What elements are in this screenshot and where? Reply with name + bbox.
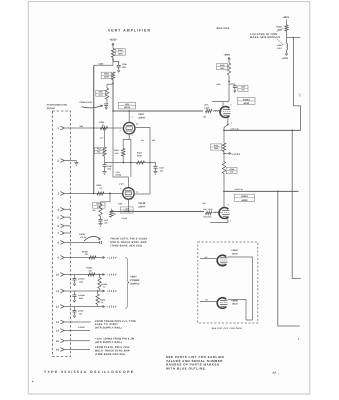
resistor R303 (series, pin 1 wire) [100,121,108,129]
svg-text:12BY7: 12BY7 [138,206,146,209]
svg-text:6DQ8: 6DQ8 [241,199,248,202]
tube V304 [123,111,135,140]
svg-text:(TIME-BASE GEN SIG): (TIME-BASE GEN SIG) [111,244,143,247]
resistor R1044 [92,204,102,217]
svg-text:.001: .001 [241,89,245,92]
svg-text:INTERCONNECTING: INTERCONNECTING [47,104,68,107]
svg-text:+125V: +125V [107,257,118,260]
interconnecting socket dashed box [52,111,70,357]
svg-text:C345: C345 [122,63,128,66]
svg-text:R1047: R1047 [276,26,282,29]
svg-text:+62: +62 [202,202,205,205]
wire R349 to junction [228,75,230,102]
label +350V (pin 12) [107,306,118,309]
svg-text:R305: R305 [114,149,119,152]
wire cathode split [123,140,131,163]
pointer lines (located note) [277,28,284,45]
svg-text:3.3: 3.3 [136,191,138,194]
pin 7 of interconnecting socket [57,231,70,235]
svg-text:(R316): (R316) [116,174,122,177]
svg-text:C1050A: C1050A [78,278,85,281]
svg-text:100: 100 [89,269,92,272]
svg-text:L306: L306 [125,103,129,106]
svg-text:C349: C349 [241,86,245,89]
wire right rail A (to upper defl line) [293,38,300,131]
svg-text:2: 2 [120,129,121,132]
label L316 R316 [116,171,122,177]
svg-text:R306: R306 [104,73,110,76]
resistor R1050 (pin 10) [87,267,105,276]
svg-text:R349: R349 [220,64,225,67]
svg-text:L1047: L1047 [277,44,283,47]
title VERT AMPLIFIER [108,29,151,33]
svg-text:6: 6 [228,203,229,206]
pin 3 of interconnecting socket [57,192,122,196]
resistor R307 [96,88,109,100]
wire V384A plate out [228,257,253,320]
svg-text:8: 8 [120,188,121,191]
inductor L1047 [277,44,288,50]
capacitor C1050A [70,275,85,286]
svg-text:+62: +62 [203,116,206,119]
ground (C317) [153,171,157,174]
svg-text:470: 470 [85,253,88,256]
svg-text:+245: +245 [216,83,220,86]
power +225V (right rail) [282,16,289,25]
tube V384A [217,255,228,266]
svg-text:+67: +67 [205,298,208,301]
ground (pin 2) [74,161,78,166]
wire R1047 to junction [286,31,288,44]
capacitor C1052 [73,307,84,318]
svg-text:V343A: V343A [241,195,248,198]
resistor R1059 (pin 9) [82,251,105,260]
svg-text:R1050: R1050 [87,267,93,270]
pin 3 V343A [228,203,231,223]
resistor R335 [210,143,225,152]
svg-text:SOCKET: SOCKET [47,107,56,110]
wire right rail B (upper defl drop) [292,130,301,278]
mark AA1 [272,371,279,375]
wire L1047 down [285,50,287,56]
pin 2 of interconnecting socket [57,159,74,163]
wire R304 to junction [112,58,114,66]
svg-text:470: 470 [160,169,163,172]
peaking coil box L306 [119,102,136,109]
pin 10 of interconnecting socket [56,273,104,277]
svg-text:+190V: +190V [224,54,231,57]
resistor R1056 [96,290,105,306]
wire +100V tap [223,152,231,154]
label 1.7V [100,136,105,139]
wire R305 to bias line [122,156,124,163]
pin 14 of interconnecting socket [56,329,90,333]
wire V304 plate to R317 column [135,127,150,194]
power +225V (top left) [109,39,117,49]
label V314 12BY7 [138,202,146,208]
svg-text:SUPPLY: SUPPLY [130,282,140,285]
grid network L341 R341 [203,208,221,219]
wire R346 to lower defl junction [223,174,225,208]
wire to R307 branch [107,84,113,88]
note pin 15 supply [95,338,134,344]
pin 3 V333A [231,103,232,124]
svg-text:C1052: C1052 [78,310,83,313]
caption TYPE 553/553A OSCILLOSCOPE [44,370,135,374]
svg-text:BASE GEN MODULE: BASE GEN MODULE [250,36,280,39]
note pin 16 sync amp [95,346,130,356]
resistor R317 [137,152,145,165]
label 6.3VAC (pin 13) [78,326,85,329]
pin 15 of interconnecting socket [56,339,90,343]
node R349/C349 junction [228,81,230,83]
node bus / pin1 wire [93,127,95,129]
wire mid column to lower plate feed [130,163,132,178]
svg-text:(TIME-BASE GEN SIG): (TIME-BASE GEN SIG) [95,353,125,356]
svg-text:1: 1 [132,134,133,137]
svg-text:V384A: V384A [231,249,238,252]
capacitor C345 [113,62,128,73]
tube V314 [123,188,135,212]
svg-text:470K: 470K [137,155,142,158]
svg-text:100K: 100K [220,67,225,70]
wire lower deflection line [224,191,299,193]
svg-text:+225V: +225V [282,57,289,60]
tick mark (rail A) [299,93,301,96]
svg-text:1: 1 [278,373,279,376]
node lower grid line junction [109,193,111,195]
label +62 (V333A) [203,116,206,119]
svg-text:1.3μH: 1.3μH [204,107,210,110]
svg-text:C317: C317 [159,167,164,170]
svg-text:V333A: V333A [243,98,250,101]
svg-text:C316: C316 [107,165,112,168]
label +125V [107,257,118,260]
svg-text:R304: R304 [118,49,124,52]
svg-text:L344 1.3μ: L344 1.3μ [234,188,242,191]
label V304 12BY7 [138,113,146,119]
power +190V [224,54,231,63]
svg-text:(1.5μH): (1.5μH) [121,217,127,220]
label +100V [107,274,118,277]
label L344 [234,188,242,191]
label +165 [118,202,123,205]
svg-text:(R314): (R314) [124,210,130,213]
svg-text:L341 1.5μH: L341 1.5μH [203,208,213,211]
note located in time base [250,33,280,39]
svg-text:+350V: +350V [107,306,118,309]
resistor R1052 [98,274,107,291]
wire plate feed V333A [212,102,229,107]
tube V333A [220,107,231,118]
svg-text:2.5K: 2.5K [115,152,120,155]
label box V333A 6DJ8 [237,97,255,105]
svg-text:6DJ8: 6DJ8 [232,303,238,306]
svg-text:R346: R346 [229,168,234,171]
svg-text:100K: 100K [214,147,219,150]
svg-text:V304: V304 [138,113,144,116]
svg-text:(HTR SUPPLY RAIL): (HTR SUPPLY RAIL) [95,341,122,344]
wire bias line [105,162,151,164]
svg-text:+225V: +225V [282,16,289,19]
capacitor C1050B [70,291,85,302]
wire upper deflection line [224,130,301,132]
mark plus [32,380,34,384]
note pin 13/14 heater supply [95,320,136,330]
label V384A 6DJ8 [231,249,238,255]
resistor R305 [114,149,125,157]
label INTERCONNECTING SOCKET [47,104,68,110]
svg-text:220K: 220K [104,76,109,79]
node bus / pin3 wire [93,193,95,195]
svg-text:R341 680: R341 680 [204,216,212,219]
label V384B 6DJ8 [231,299,238,305]
capacitor C317 [150,163,164,173]
wire R317 to V314 plate [135,193,150,195]
label +225V (pin 11) [107,290,118,293]
wire junction to left bus [94,64,113,66]
svg-text:AA: AA [272,371,276,374]
svg-text:L316: L316 [116,171,120,174]
wire V384B plate out [228,300,246,321]
wire right rail C (lower defl drop) [278,191,300,326]
resistor R304 [111,49,125,58]
pin 8 of interconnecting socket [57,241,99,245]
wire V343A cathode stub [210,218,228,222]
svg-text:3: 3 [231,121,232,124]
label VERT POWER SUPPLY [130,276,140,286]
brace power supply pins [125,257,129,308]
label +245 [216,83,220,86]
svg-text:(-760): (-760) [119,182,124,185]
svg-text:100K: 100K [118,52,123,55]
wire V333A plate to defl line [224,117,229,128]
capacitor C349 [229,84,248,92]
capacitor C316 [103,156,112,171]
label C305 [99,62,105,65]
pin numbers V304 [120,116,139,137]
blue outline dashed box [198,242,258,323]
wire main plate feed down and right [113,80,203,112]
svg-text:.005: .005 [104,222,107,225]
svg-text:C1050B: C1050B [78,294,85,297]
pin 1 of interconnecting socket [57,126,123,130]
svg-text:R307: R307 [98,91,103,94]
node plate supply junction [112,59,114,61]
resistor R316 [95,128,107,156]
label L334 [230,127,238,130]
svg-text:6DJ8: 6DJ8 [232,252,238,255]
trimmer capacitor C310B [80,101,103,108]
svg-text:6.3VAC: 6.3VAC [78,326,85,329]
note SN 545/2A [217,27,230,30]
resistor R346 [222,152,237,174]
pin 4 of interconnecting socket [57,207,70,211]
svg-text:12BY7: 12BY7 [138,116,146,119]
svg-text:47: 47 [103,286,105,289]
wire junction horizontal [287,37,301,39]
svg-text:+: + [32,380,34,384]
wire V384B grid [200,301,217,303]
svg-text:.01-.04: .01-.04 [80,236,87,239]
svg-text:V314B: V314B [138,202,145,205]
grid network L333 R333 [204,104,221,113]
svg-text:4.7K: 4.7K [99,93,104,96]
pin 11 of interconnecting socket [56,289,104,293]
svg-text:+225V: +225V [107,290,118,293]
label +67 (V384A) [204,256,207,259]
label +62 (V343A) [202,202,205,205]
svg-text:+63: +63 [141,139,144,142]
node pin1/R316 junction [104,127,106,129]
trimmer capacitor C1058 [79,233,101,244]
node right rail junction [293,37,295,39]
svg-text:R1056: R1056 [100,298,105,301]
resistor R1047 [276,25,288,32]
tube V384B [217,298,228,309]
svg-text:4: 4 [230,220,231,223]
svg-text:9: 9 [231,103,232,106]
label +225V (below L1047) [282,57,289,60]
label 3 (page mark) [298,338,300,341]
svg-text:(R306): (R306) [124,106,130,109]
ground (C344) [98,223,102,226]
svg-text:WITH BLUE OUTLINE.: WITH BLUE OUTLINE. [166,366,207,370]
pin numbers V314 [119,182,138,201]
wire V333A cathode down [223,128,225,143]
svg-text:R335: R335 [214,144,219,147]
svg-text:50: 50 [101,301,103,304]
node plate line junction [112,110,130,112]
capacitor C307 (trimmer) [104,100,108,110]
svg-text:8.3: 8.3 [136,122,139,125]
svg-text:TYPE 553/553A OSCILLOSCOPE: TYPE 553/553A OSCILLOSCOPE [44,370,135,374]
tube V343A [219,207,230,218]
svg-text:C310B 4.5-25: C310B 4.5-25 [80,101,93,104]
peaking coil box L314 [121,207,134,220]
svg-text:6DJ8: 6DJ8 [244,102,250,105]
pin 16 of interconnecting socket [56,348,90,352]
resistor R306 [101,72,115,80]
pin 5 of interconnecting socket [57,215,70,219]
svg-text:R1059: R1059 [82,251,88,254]
svg-text:SEA+52A: SEA+52A [217,27,230,30]
wire left bus vertical [93,65,95,193]
label SIG on pin 1 wire [80,125,84,128]
svg-text:+100V: +100V [107,274,118,277]
svg-text:(HTR SUPPLY RAIL): (HTR SUPPLY RAIL) [95,327,122,330]
label +63 [141,139,156,142]
pin 13 of interconnecting socket [56,320,91,324]
pin 12 of interconnecting socket [56,305,104,309]
svg-text:C1058: C1058 [79,233,86,236]
wire pin 11 arrow [103,290,105,292]
svg-text:+225V: +225V [109,39,117,42]
svg-text:L333: L333 [204,104,208,107]
node pin3/R1048 junction [109,193,111,195]
svg-text:+100V: +100V [232,153,241,156]
svg-text:820: 820 [92,209,95,212]
pin 6 of interconnecting socket [57,224,70,228]
resistor R1049 [110,209,117,218]
svg-text:SIG: SIG [80,125,84,128]
ground (pin1 RC chain) [102,172,106,175]
label +100V (cathode tap) [232,153,241,156]
svg-text:7: 7 [132,116,133,119]
wire pin 12 arrow [103,305,105,307]
svg-text:R316: R316 [97,148,102,151]
node lower defl line junction [223,191,225,193]
label +67 (V384B) [205,298,208,301]
label box V343A 6DQ8 [234,194,254,202]
note from cath pin3 (pin 8) [111,238,148,248]
resistor R1048 box [93,194,110,209]
note see parts list [166,355,225,370]
pin 9 of interconnecting socket [57,256,104,260]
capacitor C344 [99,217,109,225]
caption under dashed box [212,327,244,330]
svg-text:820: 820 [113,212,116,215]
resistor R349 [217,63,231,75]
svg-text:R1052: R1052 [102,283,107,286]
wire V384A grid [200,258,217,260]
wire lower plate feed [113,111,128,188]
svg-text:1: 1 [131,198,132,201]
wire lower grid line [110,211,204,213]
svg-text:SEE CRT CKT FOR CONT: SEE CRT CKT FOR CONT [212,327,244,330]
resistor R313 (series, pin 3 wire) [97,184,105,195]
svg-text:VERT AMPLIFIER: VERT AMPLIFIER [108,29,151,33]
node R306 bottom junction [112,82,114,84]
